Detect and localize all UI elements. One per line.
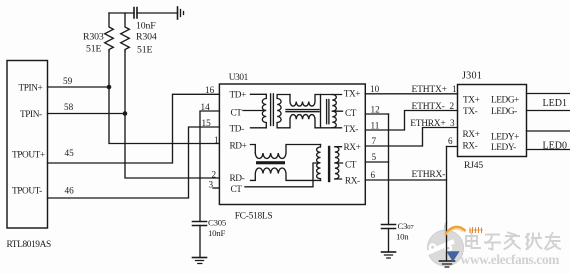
svg-text:2: 2 xyxy=(450,101,455,111)
svg-text:CT: CT xyxy=(231,109,243,119)
svg-text:LEDY-: LEDY- xyxy=(491,143,516,153)
svg-text:TX-: TX- xyxy=(344,125,359,135)
svg-text:58: 58 xyxy=(64,102,74,112)
tiny orange glyph marks xyxy=(470,228,483,233)
svg-text:1: 1 xyxy=(214,135,219,145)
choke L1 core xyxy=(286,110,319,112)
svg-text:RX-: RX- xyxy=(345,177,360,187)
ground (under C307) xyxy=(382,251,396,253)
wire pin12/pin5 down to C3x xyxy=(388,114,390,225)
svg-text:CT: CT xyxy=(231,185,243,195)
ground (under C305) xyxy=(193,257,207,259)
svg-text:LED0: LED0 xyxy=(543,141,567,152)
svg-text:TD-: TD- xyxy=(230,124,245,134)
svg-text:RX+: RX+ xyxy=(344,143,361,153)
svg-text:11: 11 xyxy=(371,121,380,131)
svg-text:TX+: TX+ xyxy=(344,90,361,100)
svg-text:ETHTX-: ETHTX- xyxy=(412,102,445,112)
char 5 xyxy=(545,233,560,250)
svg-text:6: 6 xyxy=(371,170,376,180)
wire ETHRX- : U301 pin6 to J301 pin6 xyxy=(365,147,457,181)
U301 box xyxy=(219,84,365,205)
choke L2 core bar xyxy=(256,161,285,164)
svg-text:TPOUT-: TPOUT- xyxy=(12,187,42,197)
orange swoosh xyxy=(446,227,465,234)
svg-text:5: 5 xyxy=(372,152,377,162)
svg-text:2: 2 xyxy=(212,169,217,179)
resistor R304 xyxy=(121,13,130,51)
watermark big gray chinese glyphs (hand-drawn strokes) xyxy=(466,233,560,250)
wire top horizontal right to ground xyxy=(137,12,178,14)
choke L2 top coil xyxy=(255,145,320,159)
svg-text:LEDG-: LEDG- xyxy=(491,107,517,117)
svg-text:RD-: RD- xyxy=(230,174,245,184)
svg-text:TX+: TX+ xyxy=(463,96,480,106)
ground (top right, sideways) xyxy=(177,7,179,19)
wire CT pin 3 stub xyxy=(213,187,219,189)
capacitor C305 xyxy=(193,222,207,226)
wire ETHTX+ : U301 pin10 to J301 pin1 xyxy=(365,93,457,95)
svg-text:CT: CT xyxy=(345,109,357,119)
svg-text:10: 10 xyxy=(370,84,380,94)
svg-text:10n: 10n xyxy=(396,232,409,242)
svg-text:46: 46 xyxy=(65,186,75,196)
T2 core xyxy=(327,100,329,124)
capacitor 10nF (top) xyxy=(134,8,137,19)
wire CT pin5 stub xyxy=(365,161,388,163)
wire R304 bottom to RD- (pin 2 stub) xyxy=(125,51,219,178)
svg-text:RX-: RX- xyxy=(463,142,478,152)
resistor R303 xyxy=(105,13,114,51)
svg-text:TPIN+: TPIN+ xyxy=(19,83,43,93)
svg-text:CT: CT xyxy=(345,161,357,171)
transformer T2 primary line xyxy=(320,95,322,128)
node B junction dot TPIN-/R304 xyxy=(123,111,128,116)
wire ETHRX+ : U301 pin7 to J301 pin3 xyxy=(365,128,457,147)
char 4 xyxy=(526,234,542,250)
T3 secondary with RX+/CT/RX- taps xyxy=(335,147,339,179)
svg-text:ETHRX-: ETHRX- xyxy=(412,170,446,180)
svg-text:15: 15 xyxy=(202,118,212,128)
svg-text:10nF: 10nF xyxy=(136,21,156,32)
wire J301 pin6 / chassis down to ground xyxy=(446,147,448,261)
svg-text:TD+: TD+ xyxy=(230,91,247,101)
T1 secondary xyxy=(277,95,290,128)
svg-text:7: 7 xyxy=(372,136,377,146)
T3 core bar xyxy=(328,147,330,181)
svg-text:LED1: LED1 xyxy=(543,98,567,109)
wire TPIN- xyxy=(48,113,126,115)
svg-text:RTL8019AS: RTL8019AS xyxy=(7,240,51,250)
wire LEDG- xyxy=(527,110,570,112)
svg-text:TPOUT+: TPOUT+ xyxy=(12,150,45,160)
svg-text:C305: C305 xyxy=(208,218,227,228)
svg-text:LEDG+: LEDG+ xyxy=(491,96,519,106)
svg-text:R304: R304 xyxy=(136,32,157,43)
wire TPIN+ xyxy=(48,86,110,88)
watermark logo: elecfans disc xyxy=(428,222,464,266)
wire R303 bottom to RD+ (pin 1 stub) xyxy=(109,51,219,144)
svg-text:J301: J301 xyxy=(462,71,482,82)
wire LEDG+ to LED1 xyxy=(527,93,570,95)
wire CT pin 14 down to C305 xyxy=(200,111,219,222)
svg-text:14: 14 xyxy=(201,102,211,112)
node A junction dot TPIN+/R303 xyxy=(107,85,112,90)
svg-text:12: 12 xyxy=(371,105,381,115)
svg-text:TX-: TX- xyxy=(463,107,478,117)
RTL8019AS box xyxy=(7,61,48,229)
svg-text:3: 3 xyxy=(209,179,214,189)
T2 secondary with TX+/CT/TX- taps xyxy=(332,95,336,128)
svg-text:10nF: 10nF xyxy=(208,228,225,238)
svg-text:51E: 51E xyxy=(86,44,101,55)
choke L1 bottom coil xyxy=(290,115,332,128)
wire LEDY+ xyxy=(527,130,570,132)
svg-text:45: 45 xyxy=(65,148,75,158)
watermark foreground bits xyxy=(446,227,483,262)
svg-text:www.elecfans.com: www.elecfans.com xyxy=(461,252,560,267)
svg-text:RD+: RD+ xyxy=(230,141,247,151)
choke L1 top coil xyxy=(290,95,332,107)
svg-text:16: 16 xyxy=(205,85,215,95)
svg-text:ETHTX+: ETHTX+ xyxy=(412,85,447,95)
svg-text:C307: C307 xyxy=(398,221,415,231)
svg-text:RX+: RX+ xyxy=(463,130,480,140)
blue triangle xyxy=(446,251,459,262)
wire RD+ internal xyxy=(251,145,256,154)
svg-text:LEDY+: LEDY+ xyxy=(491,133,519,143)
T1 core xyxy=(271,94,274,126)
wire CT internal tap T1 xyxy=(243,110,263,112)
svg-text:FC-518LS: FC-518LS xyxy=(235,212,273,222)
wire TPOUT- to TD- (pin 15) xyxy=(48,127,220,198)
ground (bottom right) xyxy=(440,260,455,262)
wire ETHTX- : U301 pin11 to J301 pin2 xyxy=(365,111,457,131)
transformer T3 primary xyxy=(317,145,321,181)
char 3 xyxy=(505,233,521,250)
svg-text:R303: R303 xyxy=(83,32,104,43)
choke L2 bottom coil xyxy=(251,168,321,180)
svg-text:U301: U301 xyxy=(229,73,249,83)
svg-text:3: 3 xyxy=(450,118,455,128)
svg-text:TPIN-: TPIN- xyxy=(20,110,42,120)
char 1 xyxy=(466,233,480,249)
svg-text:1: 1 xyxy=(452,84,457,94)
char 2 xyxy=(485,235,500,250)
J301 box xyxy=(458,85,527,157)
wire CT pin3 internal to T3 center tap xyxy=(245,163,318,187)
svg-text:59: 59 xyxy=(63,76,73,86)
svg-text:ETHRX+: ETHRX+ xyxy=(410,119,445,129)
wire TPOUT+ to TD+ (pin 16) xyxy=(48,94,220,163)
transformer U301 T1 primary with TD+/TD- bends xyxy=(251,94,267,128)
capacitor C307 xyxy=(382,225,396,229)
svg-text:RJ45: RJ45 xyxy=(464,160,483,171)
svg-text:6: 6 xyxy=(448,136,453,146)
wire CT pin12 stub xyxy=(365,113,388,115)
svg-text:51E: 51E xyxy=(137,45,152,56)
wire LEDY- to LED0 xyxy=(527,149,570,151)
wire top horizontal left xyxy=(109,12,134,14)
